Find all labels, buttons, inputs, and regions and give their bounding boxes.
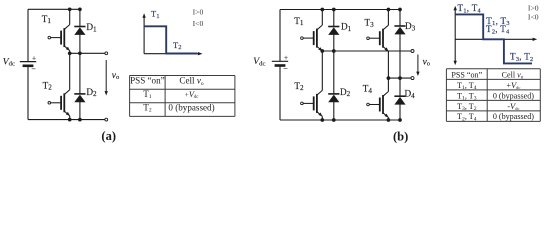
svg-text:0 (bypassed): 0 (bypassed): [493, 112, 534, 121]
svg-text:+: +: [32, 54, 36, 62]
svg-text:T3, T2: T3, T2: [510, 52, 533, 63]
svg-text:(a): (a): [101, 129, 116, 143]
svg-text:Cell vo: Cell vo: [179, 76, 203, 87]
svg-text:0 (bypassed): 0 (bypassed): [168, 102, 214, 112]
svg-text:I<0: I<0: [193, 19, 204, 28]
svg-text:(b): (b): [393, 130, 408, 144]
svg-text:PSS “on”: PSS “on”: [130, 76, 165, 86]
svg-text:+: +: [284, 54, 288, 62]
svg-text:I<0: I<0: [528, 12, 539, 21]
svg-text:−: −: [31, 64, 36, 73]
svg-text:0 (bypassed): 0 (bypassed): [493, 91, 534, 100]
svg-text:I>0: I>0: [193, 8, 204, 17]
svg-text:−: −: [283, 64, 288, 73]
svg-text:Cell vo: Cell vo: [502, 70, 524, 80]
svg-text:I>0: I>0: [528, 4, 539, 13]
svg-text:PSS “on”: PSS “on”: [451, 70, 482, 79]
